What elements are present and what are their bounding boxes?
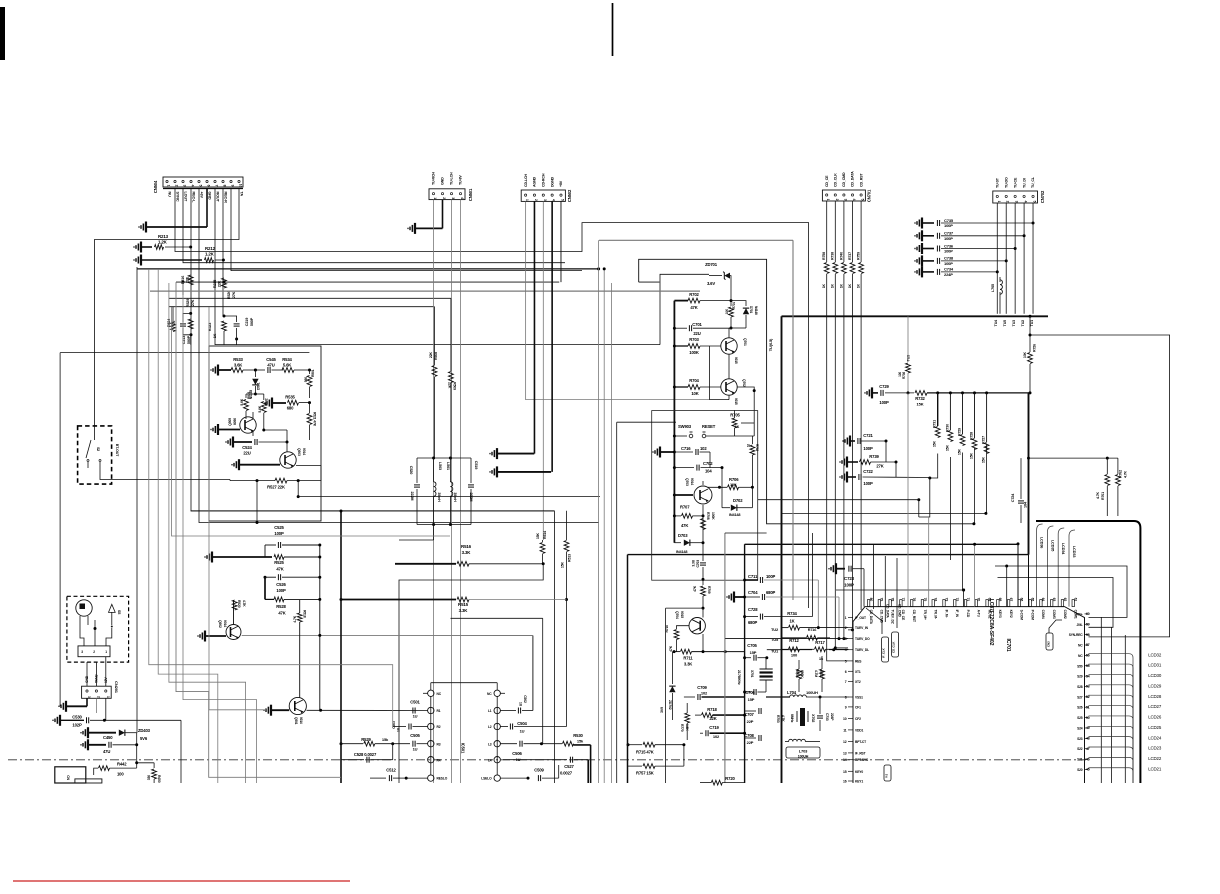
svg-text:C528 0.0027: C528 0.0027: [354, 752, 377, 757]
svg-text:IF_CLK: IF_CLK: [882, 647, 886, 658]
svg-text:77: 77: [901, 598, 905, 602]
capacitor C722: [840, 469, 930, 486]
wires from CN501 down: [434, 200, 461, 783]
svg-text:CN201: CN201: [114, 681, 119, 694]
svg-text:Q503: Q503: [297, 448, 301, 456]
svg-text:CD-LCH: CD-LCH: [524, 174, 528, 187]
svg-text:S20: S20: [1077, 768, 1083, 772]
svg-text:9014: 9014: [302, 448, 306, 455]
svg-text:R514: R514: [543, 531, 547, 539]
resistor R706: [708, 477, 754, 490]
resistor R754: [795, 660, 804, 692]
svg-text:C527: C527: [564, 764, 574, 769]
capacitor C706: [743, 689, 766, 702]
svg-text:CD_CLK: CD_CLK: [834, 173, 838, 187]
transistor Q704: [675, 608, 705, 652]
svg-text:100UH: 100UH: [798, 755, 809, 759]
svg-text:R705: R705: [730, 413, 740, 418]
svg-text:59: 59: [1086, 622, 1090, 626]
svg-text:R738: R738: [831, 252, 835, 260]
svg-text:R513: R513: [568, 554, 572, 562]
ground mid-page lower: [490, 466, 551, 477]
svg-text:72: 72: [955, 598, 959, 602]
svg-text:5.6K: 5.6K: [240, 398, 244, 405]
diode D703: [674, 533, 704, 554]
resistor R527: [230, 478, 321, 524]
svg-text:6: 6: [207, 185, 211, 187]
svg-text:54: 54: [1086, 674, 1090, 678]
svg-text:10K: 10K: [1023, 351, 1027, 358]
svg-text:LCD26: LCD26: [1148, 715, 1162, 720]
svg-text:C733: C733: [825, 713, 829, 721]
capacitor C728: [743, 533, 812, 625]
svg-text:R501: R501: [311, 369, 315, 377]
connector CN201: [82, 657, 119, 699]
wires around Q702: [710, 346, 756, 423]
svg-text:R704: R704: [689, 378, 699, 383]
wires CN201 down: [96, 698, 105, 720]
svg-text:4: 4: [552, 199, 556, 201]
svg-text:IF_IN: IF_IN: [955, 610, 959, 618]
svg-text:R532: R532: [265, 398, 269, 406]
svg-text:102P: 102P: [72, 723, 82, 728]
wires below R73x ladder: [917, 444, 987, 592]
svg-text:2: 2: [442, 197, 446, 199]
svg-text:15P: 15P: [750, 650, 757, 655]
capacitor C527: [503, 757, 588, 783]
svg-text:R521 47K: R521 47K: [313, 412, 317, 427]
svg-text:71: 71: [966, 598, 970, 602]
svg-text:R527 22K: R527 22K: [267, 485, 285, 490]
svg-text:22U: 22U: [243, 451, 250, 456]
svg-text:S5: S5: [117, 610, 121, 614]
svg-text:1.2K: 1.2K: [158, 240, 168, 245]
resistor R702: [674, 292, 732, 310]
capacitor C711: [743, 574, 818, 628]
capacitor C545: [255, 357, 283, 373]
wires C721/R739/C722: [886, 441, 896, 477]
resistor R718: [695, 707, 745, 721]
resistor R753: [776, 715, 785, 723]
LCD segment bus and wires LCD36-33: [1036, 521, 1140, 783]
resistor R701: [725, 301, 736, 330]
capacitor C502: [320, 635, 533, 713]
svg-text:3.6V: 3.6V: [707, 281, 715, 286]
svg-text:L3: L3: [488, 742, 492, 746]
svg-text:L2: L2: [488, 725, 492, 729]
resistor R710: [665, 625, 689, 652]
svg-text:TU-CE: TU-CE: [1013, 177, 1017, 188]
svg-text:LCD28: LCD28: [1148, 694, 1162, 699]
svg-text:Q702: Q702: [742, 379, 746, 387]
svg-text:ZD702: ZD702: [668, 700, 672, 710]
inductor L704: [766, 690, 848, 699]
svg-text:C734: C734: [944, 267, 954, 272]
svg-text:NC: NC: [1078, 644, 1083, 648]
resistors R731 R730 R729 R728 R727: [933, 391, 989, 463]
svg-text:3.3K: 3.3K: [459, 608, 469, 613]
svg-text:1: 1: [433, 197, 437, 199]
connector CN501: [429, 172, 473, 202]
svg-text:TU-RCH: TU-RCH: [432, 172, 436, 185]
resistor R515: [340, 597, 567, 613]
svg-text:TU-DO: TU-DO: [1004, 177, 1008, 188]
svg-text:53: 53: [1086, 685, 1090, 689]
svg-text:R762: R762: [755, 444, 759, 451]
svg-text:C501: C501: [410, 700, 420, 705]
svg-text:1: 1: [826, 199, 830, 201]
svg-text:3.3U: 3.3U: [692, 559, 696, 566]
svg-text:IF_RST: IF_RST: [855, 751, 866, 755]
resistor R717: [810, 640, 848, 661]
svg-text:LCD25: LCD25: [1148, 725, 1162, 730]
capacitor C719: [700, 725, 745, 739]
svg-text:560: 560: [304, 377, 308, 382]
capacitor C704: [727, 590, 841, 640]
ground at CN501: [408, 200, 443, 234]
svg-text:NC: NC: [437, 692, 442, 696]
svg-text:1U: 1U: [520, 729, 525, 734]
svg-text:L503: L503: [438, 462, 442, 470]
svg-text:Q704: Q704: [675, 611, 679, 619]
svg-text:C703: C703: [696, 560, 700, 568]
svg-text:R531: R531: [247, 391, 251, 399]
svg-text:SYN-REC: SYN-REC: [1069, 633, 1084, 637]
svg-text:Q701: Q701: [743, 338, 747, 346]
svg-text:68: 68: [998, 598, 1002, 602]
capacitor C504: [500, 600, 566, 734]
capacitor C705: [743, 643, 768, 661]
svg-text:R525: R525: [274, 560, 284, 565]
svg-text:14: 14: [843, 758, 847, 762]
svg-text:8: 8: [223, 185, 227, 187]
svg-text:TU_CL: TU_CL: [1031, 176, 1035, 188]
svg-text:LCD36: LCD36: [1040, 537, 1044, 548]
svg-text:64: 64: [1041, 598, 1045, 602]
svg-text:J06+: J06+: [1076, 612, 1083, 616]
resistor R213: [134, 234, 192, 253]
svg-text:500P: 500P: [250, 317, 254, 326]
transistor Q505: [211, 412, 256, 435]
svg-text:16: 16: [843, 780, 847, 784]
svg-text:LCD31: LCD31: [1148, 663, 1162, 668]
svg-text:80: 80: [869, 598, 873, 602]
svg-text:C738: C738: [944, 256, 954, 261]
svg-text:R706: R706: [729, 477, 739, 482]
switch S2 in BT-OUT box: [78, 426, 230, 484]
resistor R726: [1023, 315, 1037, 393]
svg-text:R753: R753: [776, 715, 780, 723]
svg-text:2: 2: [175, 185, 179, 187]
svg-text:TU_DI: TU_DI: [1022, 178, 1026, 188]
svg-text:102: 102: [713, 734, 720, 739]
resistor R529b: [340, 737, 393, 746]
svg-text:TU2: TU2: [771, 627, 779, 632]
svg-text:TR_M-: TR_M-: [934, 610, 938, 619]
svg-text:R737: R737: [848, 252, 852, 260]
wire bundle from CN504: [95, 188, 810, 783]
resistor R509: [448, 298, 457, 458]
svg-text:L1: L1: [488, 709, 492, 713]
svg-text:100P: 100P: [276, 588, 286, 593]
svg-text:R509: R509: [453, 382, 457, 390]
svg-text:2: 2: [534, 199, 538, 201]
resistor R708: [701, 512, 715, 530]
svg-text:AGND: AGND: [533, 176, 537, 187]
svg-text:LCD29: LCD29: [1148, 683, 1162, 688]
connector CN504: [153, 177, 243, 203]
svg-text:ZD403: ZD403: [138, 728, 151, 733]
svg-text:56: 56: [1086, 654, 1090, 658]
svg-text:SW903: SW903: [678, 424, 692, 429]
svg-text:27K: 27K: [876, 464, 883, 469]
capacitor C530: [53, 715, 181, 784]
svg-text:LCD34: LCD34: [1061, 543, 1065, 555]
fold dash-dot line across page: [8, 759, 1086, 761]
diode D701: [731, 301, 758, 328]
svg-text:R716: R716: [808, 628, 817, 632]
ground at CN201: [59, 698, 87, 712]
svg-text:TUEV_DL: TUEV_DL: [855, 648, 869, 652]
wire S2 to R527: [229, 480, 231, 481]
wires CN701 to IC701: [827, 296, 861, 661]
svg-text:100UH: 100UH: [806, 690, 818, 695]
svg-text:R739: R739: [869, 454, 879, 459]
svg-text:J06-: J06-: [1077, 623, 1083, 627]
svg-text:2: 2: [835, 199, 839, 201]
svg-text:R515: R515: [458, 602, 469, 607]
svg-text:C737: C737: [944, 231, 954, 236]
svg-text:LC87F72C8A-SF402: LC87F72C8A-SF402: [988, 599, 994, 646]
wire center vertical bundle: [340, 240, 612, 783]
resistor R518: [293, 600, 307, 697]
svg-text:9015: 9015: [680, 611, 684, 618]
svg-text:LSELO: LSELO: [481, 777, 492, 781]
svg-text:C704: C704: [748, 590, 758, 595]
svg-text:BT-OUT: BT-OUT: [115, 444, 119, 457]
svg-text:R759: R759: [857, 252, 861, 260]
svg-text:R758: R758: [822, 252, 826, 260]
svg-text:22K: 22K: [218, 280, 222, 287]
resistor R705: [730, 410, 754, 436]
capacitors C735 C737 C736 C738 C734: [915, 218, 1035, 278]
resistor R215: [213, 278, 226, 288]
svg-text:IC501: IC501: [461, 743, 466, 754]
svg-text:C716: C716: [681, 446, 691, 451]
svg-text:C711: C711: [748, 574, 758, 579]
resistor R450: [137, 763, 161, 783]
resistor R704: [673, 378, 721, 396]
svg-text:CD_CMD: CD_CMD: [898, 604, 902, 618]
svg-text:49: 49: [1086, 726, 1090, 730]
svg-text:R740: R740: [839, 252, 843, 260]
svg-text:LCD35: LCD35: [1050, 540, 1054, 551]
svg-text:9: 9: [845, 705, 847, 709]
capacitor C524: [226, 437, 287, 456]
wires TUEV rows to IC701: [725, 639, 848, 652]
svg-text:10: 10: [747, 444, 751, 448]
IC701 left pins 1-16: [843, 616, 870, 784]
capacitor C519: [468, 458, 478, 525]
svg-text:TUEV_DZ: TUEV_DZ: [890, 610, 894, 624]
svg-text:R708: R708: [706, 512, 710, 520]
svg-text:8MHz: 8MHz: [790, 714, 794, 723]
svg-text:8050: 8050: [233, 418, 237, 425]
svg-text:IF_OUT: IF_OUT: [855, 616, 866, 620]
svg-text:104: 104: [1024, 501, 1028, 508]
svg-text:1K: 1K: [735, 425, 740, 429]
svg-text:76: 76: [912, 598, 916, 602]
resistor R523 / capacitor C219: [208, 315, 254, 345]
svg-text:4.7K: 4.7K: [781, 715, 785, 722]
svg-text:3: 3: [451, 197, 455, 199]
svg-text:4.7M: 4.7M: [814, 670, 818, 677]
box around reset circuit: [652, 411, 758, 581]
capacitor C721: [843, 433, 888, 451]
transistor Q501: [264, 545, 428, 725]
svg-text:3.6K: 3.6K: [234, 363, 242, 368]
svg-text:D702: D702: [733, 498, 743, 503]
inductor L703: [785, 739, 820, 758]
svg-text:4.7K: 4.7K: [293, 615, 297, 622]
connector CN701: [822, 171, 871, 202]
svg-text:51: 51: [1086, 705, 1090, 709]
svg-text:R520: R520: [237, 600, 241, 608]
svg-text:TU3: TU3: [1012, 320, 1016, 326]
resistor R501: [304, 369, 315, 398]
svg-text:X701: X701: [750, 670, 754, 678]
svg-text:47K: 47K: [681, 523, 688, 528]
svg-text:69: 69: [987, 598, 991, 602]
svg-text:1K: 1K: [857, 283, 861, 288]
resistor R535: [265, 395, 311, 411]
wire thick bus to IC area: [628, 393, 1031, 555]
svg-text:CD_CMD: CD_CMD: [842, 172, 846, 187]
IC U IC701 outline: [853, 599, 1085, 783]
svg-text:R717: R717: [815, 640, 825, 645]
svg-text:73: 73: [944, 598, 948, 602]
svg-text:58: 58: [1086, 633, 1090, 637]
svg-text:3: 3: [845, 637, 847, 641]
ground at CN504 GND pin: [139, 188, 207, 233]
svg-text:R727: R727: [982, 436, 986, 444]
svg-text:CN502: CN502: [567, 189, 572, 202]
svg-text:C530: C530: [72, 715, 82, 720]
zener diode ZD701: [705, 262, 731, 301]
resistor R720: [700, 776, 745, 785]
capacitor C509: [500, 765, 558, 781]
svg-text:LCD24: LCD24: [1148, 735, 1162, 740]
svg-text:CD_CE: CD_CE: [825, 175, 829, 187]
wires from CN502 down: [526, 201, 710, 540]
svg-text:R529: R529: [186, 299, 190, 308]
resistor R711: [673, 649, 745, 666]
svg-text:63: 63: [1052, 598, 1056, 602]
svg-text:3: 3: [1015, 201, 1019, 203]
svg-text:100P: 100P: [844, 583, 854, 588]
svg-text:C504: C504: [517, 721, 527, 726]
svg-text:1U: 1U: [413, 714, 418, 719]
svg-text:100P: 100P: [944, 236, 953, 241]
resistor R529 / capacitor C213: [180, 299, 195, 345]
svg-text:CN701: CN701: [867, 189, 872, 202]
svg-text:D501: D501: [257, 382, 261, 390]
svg-text:R711: R711: [683, 656, 693, 661]
IC701 top pins 80-61: [867, 598, 1077, 625]
svg-text:79: 79: [880, 598, 884, 602]
svg-text:R442: R442: [117, 762, 127, 767]
svg-text:15K: 15K: [982, 456, 986, 463]
svg-text:70: 70: [977, 598, 981, 602]
svg-text:15: 15: [843, 770, 847, 774]
svg-text:R720: R720: [725, 776, 735, 781]
resistor R739: [840, 454, 898, 469]
svg-text:D703: D703: [678, 533, 688, 538]
svg-text:GND: GND: [207, 192, 211, 200]
svg-text:2: 2: [845, 626, 847, 630]
LCD21-32 wires and labels: [1089, 652, 1162, 783]
resistor R709: [693, 585, 711, 609]
svg-text:65: 65: [1030, 598, 1034, 602]
svg-text:R3: R3: [437, 742, 441, 746]
svg-text:TU1: TU1: [1030, 320, 1034, 326]
switch SW903 RESET: [673, 423, 754, 438]
svg-text:4: 4: [852, 199, 856, 201]
wire TU bus to SYN-REC: [1029, 334, 1170, 637]
svg-text:100K: 100K: [711, 512, 715, 520]
resistor R707: [673, 505, 705, 543]
svg-text:R757 15K: R757 15K: [636, 771, 654, 776]
svg-text:1.2K: 1.2K: [205, 252, 215, 257]
svg-text:1K: 1K: [789, 619, 794, 624]
transistor Q702: [721, 379, 746, 405]
IC U IC501: [423, 683, 505, 782]
capacitor C503: [392, 721, 428, 732]
inductor L503: [434, 458, 442, 525]
connector bottom cut-off: [55, 767, 102, 783]
crystal X701: [737, 658, 773, 692]
svg-text:3.3K: 3.3K: [462, 550, 472, 555]
svg-text:39mH: 39mH: [437, 492, 441, 502]
svg-text:8: 8: [845, 696, 847, 700]
svg-text:C526: C526: [276, 582, 286, 587]
wire gray vertical 725: [725, 533, 767, 783]
svg-text:RES: RES: [855, 659, 862, 663]
resistor R712: [771, 638, 810, 658]
resistor R526 label: [227, 291, 236, 300]
svg-text:S25: S25: [1077, 716, 1083, 720]
svg-text:R707: R707: [680, 505, 690, 510]
resistor R713: [814, 656, 824, 692]
svg-text:100P: 100P: [766, 574, 776, 579]
svg-text:SYNC: SYNC: [175, 192, 179, 202]
svg-text:TUEV_DO: TUEV_DO: [855, 637, 870, 641]
svg-text:15K: 15K: [958, 448, 962, 455]
svg-text:KEY3: KEY3: [998, 610, 1002, 618]
resistor R524: [167, 307, 176, 332]
svg-text:5V6: 5V6: [140, 736, 148, 741]
wire Q70x spine: [673, 301, 675, 543]
transistor Q503: [232, 442, 321, 481]
ground mid-page upper: [490, 448, 534, 459]
svg-text:R770: R770: [680, 724, 684, 732]
wire L-filter rails: [417, 457, 471, 527]
resistors R761 R762: [1029, 457, 1128, 516]
svg-text:50: 50: [1086, 716, 1090, 720]
svg-text:1: 1: [167, 185, 171, 187]
svg-text:Y-2: Y-2: [885, 773, 889, 778]
svg-text:TR_M+: TR_M+: [923, 610, 927, 620]
